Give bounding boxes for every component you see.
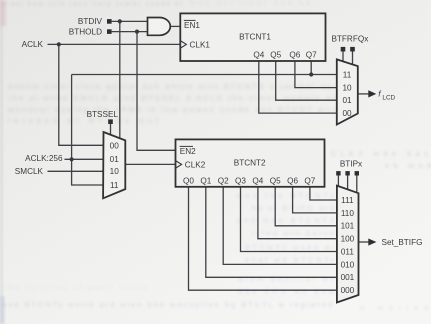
svg-text:EN1: EN1 bbox=[184, 21, 200, 30]
svg-text:01: 01 bbox=[342, 96, 352, 105]
svg-text:anehm timer clock genrel ach w: anehm timer clock genrel ach whice ains … bbox=[8, 82, 338, 91]
svg-text:enat wd BTCNTs: enat wd BTCNTs bbox=[245, 256, 334, 265]
svg-text:Q7: Q7 bbox=[304, 177, 315, 186]
svg-text:Q6: Q6 bbox=[289, 51, 300, 60]
svg-text:BTFRFQx: BTFRFQx bbox=[331, 35, 368, 44]
svg-text:CLK1: CLK1 bbox=[190, 40, 211, 49]
svg-text:Q3: Q3 bbox=[235, 177, 246, 186]
svg-text:011: 011 bbox=[341, 247, 354, 256]
svg-text:010: 010 bbox=[341, 260, 355, 269]
svg-text:11: 11 bbox=[110, 181, 119, 190]
svg-text:BTCNT1: BTCNT1 bbox=[239, 32, 271, 41]
svg-text:Q2: Q2 bbox=[218, 177, 229, 186]
svg-text:rhe ol wchd SMCLK arnd BTSSEL: rhe ol wchd SMCLK arnd BTSSEL d ACLK the… bbox=[8, 94, 338, 103]
svg-text:Q7: Q7 bbox=[306, 51, 317, 60]
svg-text:10: 10 bbox=[110, 167, 120, 176]
svg-text:001: 001 bbox=[341, 273, 355, 282]
svg-text:100: 100 bbox=[341, 235, 355, 244]
svg-text:Q1: Q1 bbox=[200, 177, 211, 186]
svg-text:Set_BTIFG: Set_BTIFG bbox=[382, 238, 423, 247]
svg-text:101: 101 bbox=[341, 222, 355, 231]
svg-text:and mhe BTCNT2: and mhe BTCNT2 bbox=[237, 216, 334, 225]
svg-text:BTCNT2: BTCNT2 bbox=[234, 159, 266, 168]
svg-text:SMCLK: SMCLK bbox=[15, 167, 44, 176]
svg-text:00: 00 bbox=[342, 109, 352, 118]
svg-text:11: 11 bbox=[343, 71, 352, 80]
svg-text:10: 10 bbox=[342, 83, 352, 92]
svg-text:praei bam vctk rano iterp scal: praei bam vctk rano iterp scaler unede b… bbox=[2, 1, 182, 8]
svg-text:BTHOLD: BTHOLD bbox=[69, 27, 102, 36]
svg-text:Q0: Q0 bbox=[183, 177, 194, 186]
svg-text:110: 110 bbox=[341, 209, 354, 218]
svg-text:111: 111 bbox=[341, 196, 354, 205]
svg-text:00: 00 bbox=[110, 141, 120, 150]
svg-text:BTIPx: BTIPx bbox=[340, 160, 362, 169]
svg-text:BTSSEL: BTSSEL bbox=[87, 110, 119, 119]
svg-text:Q4: Q4 bbox=[253, 51, 264, 60]
svg-text:ACLK: ACLK bbox=[22, 40, 44, 49]
svg-text:wrem Banctier ws: wrem Banctier ws bbox=[237, 274, 334, 283]
svg-text:LCD: LCD bbox=[382, 94, 395, 101]
svg-text:01: 01 bbox=[110, 155, 120, 164]
svg-text:Q5: Q5 bbox=[270, 177, 281, 186]
svg-text:Q5: Q5 bbox=[270, 51, 281, 60]
svg-text:BTDIV: BTDIV bbox=[78, 17, 103, 26]
svg-text:000: 000 bbox=[341, 286, 355, 295]
svg-text:EN2: EN2 bbox=[180, 147, 196, 156]
svg-text:Q6: Q6 bbox=[287, 177, 298, 186]
svg-text:Q4: Q4 bbox=[252, 177, 263, 186]
svg-text:ACLK:256: ACLK:256 bbox=[25, 154, 63, 163]
svg-text:CLK2: CLK2 bbox=[185, 160, 206, 169]
